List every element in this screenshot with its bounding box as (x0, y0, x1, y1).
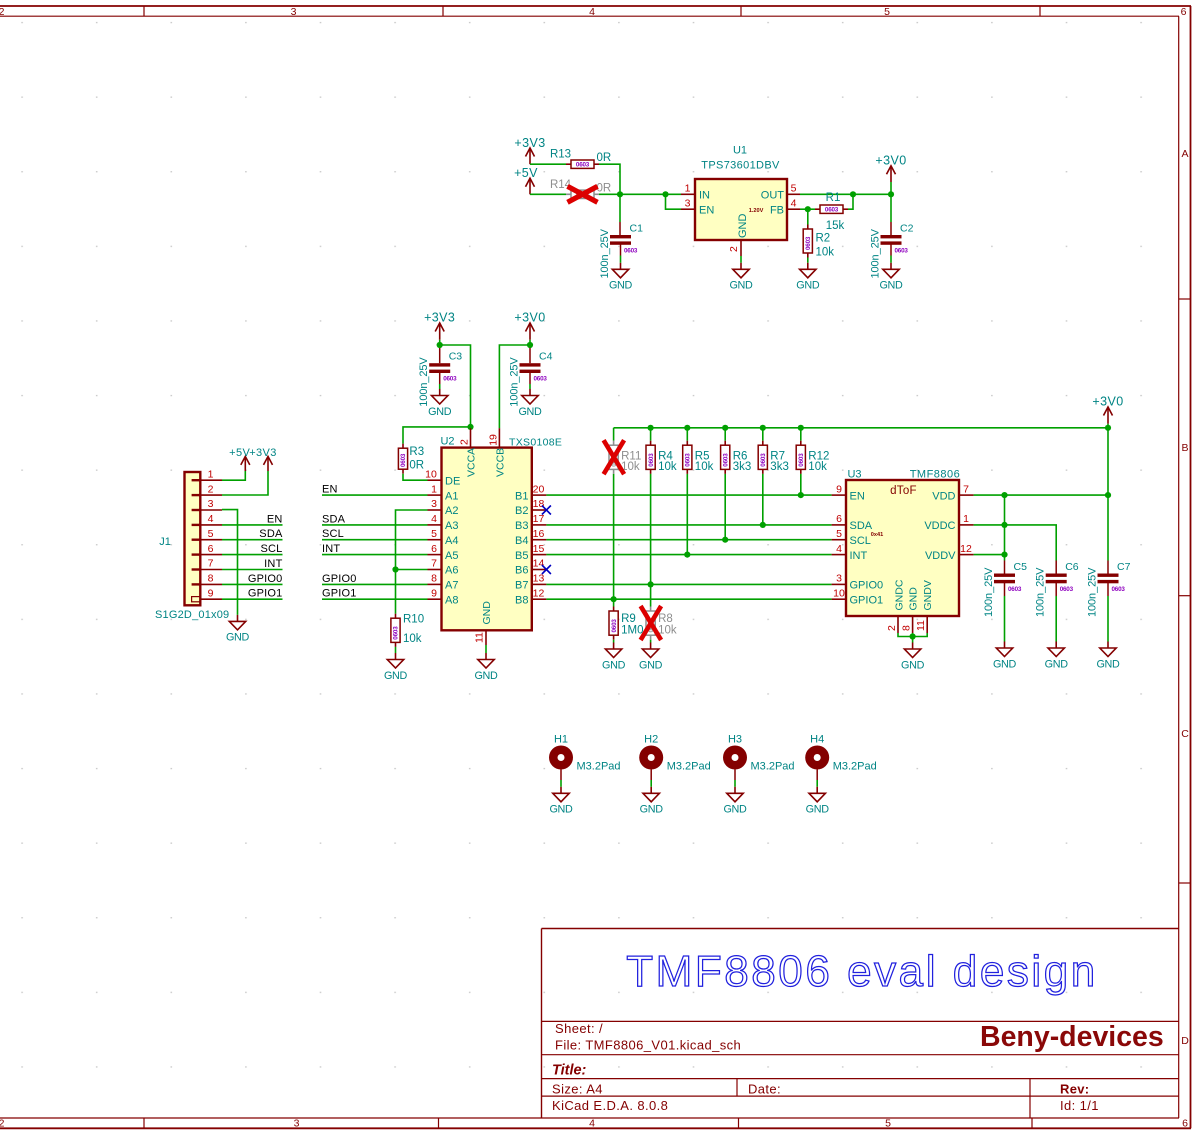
svg-text:0x41: 0x41 (871, 532, 883, 538)
wire J1 pin 4 EN (222, 524, 283, 526)
wire EN to U2 (322, 494, 428, 496)
svg-text:R10: R10 (403, 614, 424, 626)
resistor R8 10k DNP (641, 606, 677, 640)
svg-text:SCL: SCL (850, 535, 871, 547)
junction R6 net (722, 537, 728, 543)
junction VDD/C7 (1105, 492, 1111, 498)
ground H2 (640, 787, 664, 816)
svg-text:2: 2 (0, 1118, 5, 1130)
svg-text:A: A (1181, 148, 1188, 160)
svg-text:H4: H4 (810, 734, 824, 746)
svg-text:U1: U1 (733, 145, 747, 157)
svg-text:B4: B4 (515, 535, 528, 547)
power +3V3 (top) (514, 136, 545, 164)
svg-text:10k: 10k (695, 461, 714, 473)
ground H3 (723, 787, 747, 816)
svg-text:0603: 0603 (393, 626, 400, 640)
svg-text:3: 3 (294, 1118, 300, 1130)
svg-text:100n_25V: 100n_25V (1087, 567, 1099, 617)
svg-text:A4: A4 (445, 535, 458, 547)
ground C6 (1045, 642, 1069, 671)
svg-text:D: D (1181, 1035, 1189, 1047)
U1 pin 5 OUT (761, 183, 800, 202)
junction R5 net (684, 552, 690, 558)
svg-text:3: 3 (431, 498, 437, 510)
J1 pin 3 (200, 498, 222, 510)
resistor R9 1M0 (609, 607, 643, 640)
U2 pin 13 B7 (515, 573, 546, 592)
junction VIN/EN (662, 191, 668, 197)
svg-text:EN: EN (850, 490, 865, 502)
svg-text:R8: R8 (658, 613, 673, 625)
ground R10 (384, 653, 408, 682)
capacitor C2 100n_25V (870, 223, 914, 279)
svg-text:GND: GND (549, 804, 573, 816)
svg-text:1M0: 1M0 (621, 625, 643, 637)
svg-text:11: 11 (474, 632, 486, 643)
resistor R6 3k3 (721, 441, 752, 474)
svg-text:R9: R9 (621, 613, 636, 625)
U2 pin 12 B8 (515, 587, 546, 606)
U3 pin 1 VDDC (924, 513, 973, 532)
wire R13 to node (599, 164, 620, 194)
svg-text:14: 14 (533, 558, 545, 570)
U2 pin 18 B2 (515, 498, 546, 517)
U2 pin 15 B5 (515, 543, 546, 562)
U2 pin 20 B1 (515, 483, 546, 502)
wire rail to R5 (686, 428, 688, 441)
U3 pin 7 VDD (932, 483, 973, 502)
junction +3V0/C4 (527, 342, 533, 348)
U2 pin 9 A8 (428, 587, 459, 606)
svg-text:A5: A5 (445, 550, 458, 562)
svg-text:GND: GND (1045, 658, 1069, 670)
J1 pin 9 (200, 587, 222, 599)
svg-text:OUT: OUT (761, 190, 785, 202)
svg-text:2: 2 (459, 439, 471, 445)
svg-text:C5: C5 (1014, 561, 1028, 573)
wire +3V0 to VCCB (499, 345, 530, 428)
svg-text:GPIO0: GPIO0 (322, 573, 357, 585)
svg-text:KiCad E.D.A. 8.0.8: KiCad E.D.A. 8.0.8 (552, 1098, 668, 1113)
power +5V (top) (514, 166, 538, 194)
junction +3V3/C3 (437, 342, 443, 348)
junction VCCA node (467, 424, 473, 430)
wire VDDC (974, 525, 1057, 561)
svg-text:VCCB: VCCB (494, 448, 506, 477)
wire GPIO0 to U2 (322, 583, 428, 585)
svg-text:6: 6 (431, 543, 437, 555)
power +3V3 (U2) (424, 311, 455, 340)
U2 pin 8 A7 (428, 573, 459, 592)
wire +3V3 to VCCA (440, 345, 471, 428)
svg-text:INT: INT (850, 550, 868, 562)
svg-text:dToF: dToF (890, 485, 917, 497)
U1 pin 2 GND (728, 240, 741, 256)
svg-text:GND: GND (474, 670, 498, 682)
ground U2 (474, 653, 498, 682)
wire R12 down (800, 474, 802, 495)
svg-text:M3.2Pad: M3.2Pad (667, 761, 711, 773)
svg-text:+3V3: +3V3 (514, 136, 545, 150)
wire +3V0 node (529, 340, 531, 345)
wire A6 stub (396, 569, 428, 571)
J1 pin 7 (200, 558, 222, 570)
svg-text:0603: 0603 (443, 376, 457, 383)
svg-text:4: 4 (791, 198, 797, 210)
svg-text:2: 2 (728, 246, 740, 252)
wire R3 branch (403, 427, 471, 444)
wire FB node (800, 208, 815, 210)
U2 pin 6 A5 (428, 543, 459, 562)
wire SCL to U2 (322, 539, 428, 541)
svg-text:100n_25V: 100n_25V (599, 228, 611, 278)
svg-text:GND: GND (640, 804, 664, 816)
capacitor C7 100n_25V (1087, 561, 1131, 617)
svg-text:GND: GND (796, 280, 820, 292)
junction R11 net (611, 596, 617, 602)
svg-text:C6: C6 (1065, 561, 1079, 573)
svg-text:2: 2 (208, 483, 214, 495)
title block (542, 929, 1179, 1119)
svg-text:GND: GND (993, 658, 1017, 670)
svg-text:INT: INT (264, 558, 282, 570)
junction VDDC (1001, 522, 1007, 528)
wire R14 to U1 IN (599, 193, 681, 195)
wire C1 up (619, 194, 621, 222)
resistor R10 10k (391, 614, 424, 647)
mounting hole H1 M3.2Pad (549, 734, 621, 773)
svg-text:9: 9 (836, 483, 842, 495)
mounting hole H3 M3.2Pad (723, 734, 795, 773)
svg-text:0R: 0R (409, 460, 424, 472)
capacitor C5 100n_25V (983, 561, 1027, 617)
svg-text:0603: 0603 (685, 453, 692, 467)
svg-text:4: 4 (836, 543, 842, 555)
wire U2 B to U3 (546, 539, 831, 541)
svg-text:U3: U3 (847, 469, 861, 481)
svg-text:GND: GND (384, 670, 408, 682)
wire C3 gnd (439, 372, 441, 384)
U3 pin 3 GPIO0 (832, 573, 884, 592)
svg-text:4: 4 (208, 513, 214, 525)
junction VIN/C1 (617, 191, 623, 197)
svg-text:EN: EN (322, 484, 338, 496)
svg-text:1: 1 (431, 483, 437, 495)
resistor R2 10k (803, 225, 834, 259)
ground J1 (226, 615, 250, 644)
svg-text:+3V3: +3V3 (249, 447, 277, 459)
wire INT to U2 (322, 554, 428, 556)
junction rail R7 (760, 425, 766, 431)
svg-text:6: 6 (208, 543, 214, 555)
wire VDD to +3V0 (974, 428, 1108, 495)
U3 pin 4 INT (832, 543, 868, 562)
resistor R1 15k (815, 192, 848, 232)
power +3V0 (rail) (1092, 395, 1123, 424)
wire rail to R7 (762, 428, 764, 441)
svg-text:0R: 0R (597, 182, 612, 194)
wire U2 B to U3 (546, 598, 831, 600)
svg-text:7: 7 (208, 558, 214, 570)
svg-text:A2: A2 (445, 505, 458, 517)
svg-text:1.20V: 1.20V (749, 208, 764, 214)
svg-text:8: 8 (431, 573, 437, 585)
wire J1 pin 7 INT (222, 569, 283, 571)
svg-text:M3.2Pad: M3.2Pad (751, 761, 795, 773)
svg-text:DE: DE (445, 475, 460, 487)
junction OUT/+3V0 (888, 191, 894, 197)
svg-text:5: 5 (791, 183, 797, 195)
wire U2 B to U3 (546, 583, 831, 585)
svg-text:17: 17 (533, 513, 545, 525)
svg-text:13: 13 (533, 573, 545, 585)
svg-text:0603: 0603 (400, 453, 407, 467)
U1 pin 1 IN (681, 183, 710, 202)
svg-text:B6: B6 (515, 565, 528, 577)
svg-text:B7: B7 (515, 580, 528, 592)
svg-text:+5V: +5V (229, 447, 250, 459)
svg-text:A3: A3 (445, 520, 458, 532)
svg-text:VDDC: VDDC (924, 520, 955, 532)
svg-text:B: B (1181, 442, 1188, 454)
wire U2 B to U3 (546, 554, 831, 556)
svg-text:6: 6 (1181, 6, 1187, 18)
power +5V (J1) (229, 447, 250, 471)
U2 pin 4 A3 (428, 513, 459, 532)
svg-text:100n_25V: 100n_25V (870, 228, 882, 278)
svg-text:0603: 0603 (805, 236, 812, 250)
ground H4 (806, 787, 830, 816)
wire H4 gnd (816, 770, 818, 781)
svg-text:1: 1 (963, 513, 969, 525)
svg-text:B2: B2 (515, 505, 528, 517)
svg-text:0603: 0603 (760, 453, 767, 467)
svg-text:0603: 0603 (624, 248, 638, 255)
junction rail +3V0 (1105, 425, 1111, 431)
wire C5 gnd (1004, 583, 1006, 596)
svg-text:GND: GND (1096, 658, 1120, 670)
svg-text:9: 9 (431, 587, 437, 599)
svg-text:S1G2D_01x09: S1G2D_01x09 (155, 609, 229, 621)
resistor R12 10k (796, 441, 829, 474)
wire C2 gnd (890, 244, 892, 255)
svg-text:GND: GND (639, 659, 663, 671)
svg-text:TMF8806 eval design: TMF8806 eval design (626, 947, 1098, 996)
U2 pin 17 B3 (515, 513, 546, 532)
svg-text:Beny-devices: Beny-devices (980, 1021, 1164, 1053)
svg-text:Sheet: /: Sheet: / (555, 1021, 603, 1036)
wire C7 column (1107, 495, 1109, 560)
ground R2 (796, 263, 820, 292)
svg-text:TPS73601DBV: TPS73601DBV (701, 160, 780, 172)
svg-text:10k: 10k (658, 461, 677, 473)
svg-text:+3V3: +3V3 (424, 311, 455, 325)
svg-text:12: 12 (533, 587, 545, 599)
wire J1 pin 6 SCL (222, 554, 283, 556)
svg-text:0603: 0603 (1112, 586, 1126, 593)
U3 pin 6 SDA (832, 513, 873, 532)
svg-text:GND: GND (609, 280, 633, 292)
power +3V3 (J1) (249, 447, 277, 471)
wire H2 gnd (650, 770, 652, 781)
svg-text:R1: R1 (826, 192, 841, 204)
junction rail R4 (648, 425, 654, 431)
junction A6 (392, 566, 398, 572)
wire +3V3 to R13 (530, 163, 566, 165)
svg-text:IN: IN (699, 190, 710, 202)
junction rail R5 (684, 425, 690, 431)
svg-text:C2: C2 (900, 223, 914, 235)
U3 pin 12 VDDV (925, 543, 974, 562)
svg-text:0603: 0603 (648, 453, 655, 467)
svg-text:10k: 10k (403, 633, 422, 645)
wire A2-A6 tie (396, 510, 428, 614)
ground C2 (879, 263, 903, 292)
resistor R4 10k (646, 441, 677, 474)
wire H3 gnd (734, 770, 736, 781)
U2 pin 19 VCCB (487, 428, 499, 447)
svg-text:1: 1 (685, 183, 691, 195)
svg-text:100n_25V: 100n_25V (418, 357, 430, 407)
svg-text:0R: 0R (597, 152, 612, 164)
svg-text:GPIO0: GPIO0 (850, 580, 884, 592)
capacitor C4 100n_25V (509, 351, 553, 407)
wire J1 pin1 +5V (222, 471, 245, 480)
svg-text:GND: GND (879, 280, 903, 292)
mounting hole H4 M3.2Pad (805, 734, 877, 773)
capacitor C6 100n_25V (1035, 561, 1079, 617)
mounting hole H2 M3.2Pad (639, 734, 711, 773)
svg-text:GND: GND (737, 214, 749, 239)
J1 pin 8 (200, 573, 222, 585)
wire R3 to DE (403, 474, 428, 481)
svg-text:10k: 10k (808, 461, 827, 473)
svg-text:+3V0: +3V0 (514, 311, 545, 325)
connector J1 S1G2D_01x09 (155, 472, 229, 621)
svg-text:B3: B3 (515, 520, 528, 532)
U2 pin 7 A6 (428, 558, 459, 577)
wire U2 B to U3 (546, 524, 831, 526)
svg-text:GPIO0: GPIO0 (248, 573, 283, 585)
svg-text:5: 5 (884, 6, 890, 18)
U1 pin 4 FB (770, 198, 800, 217)
svg-text:GND: GND (806, 804, 830, 816)
svg-text:H3: H3 (728, 734, 742, 746)
svg-text:VDDV: VDDV (925, 550, 956, 562)
IC U1 TPS73601DBV (695, 145, 787, 241)
svg-text:GND: GND (723, 804, 747, 816)
wire rail to R11 (613, 428, 615, 441)
junction VDD/C5 (1001, 492, 1007, 498)
svg-text:INT: INT (322, 543, 340, 555)
wire C4 gnd (529, 372, 531, 384)
svg-text:GNDV: GNDV (922, 580, 934, 610)
svg-text:2: 2 (886, 625, 898, 631)
svg-text:R3: R3 (409, 446, 424, 458)
resistor R3 0R (398, 444, 424, 474)
svg-text:+3V0: +3V0 (875, 154, 906, 168)
svg-text:4: 4 (431, 513, 437, 525)
svg-text:GPIO1: GPIO1 (248, 588, 283, 600)
svg-text:TMF8806: TMF8806 (910, 469, 961, 481)
svg-text:3: 3 (685, 198, 691, 210)
wire J1 pin 5 SDA (222, 539, 283, 541)
svg-text:M3.2Pad: M3.2Pad (577, 761, 621, 773)
U2 pin 11 GND (474, 630, 487, 645)
svg-text:Rev:: Rev: (1060, 1082, 1089, 1097)
svg-text:EN: EN (699, 205, 714, 217)
wire C7 gnd (1107, 583, 1109, 596)
power +3V0 (U2) (514, 311, 545, 340)
svg-text:M3.2Pad: M3.2Pad (833, 761, 877, 773)
ground C4 (518, 389, 542, 418)
J1 pin 6 (200, 543, 222, 555)
resistor R7 3k3 (758, 441, 789, 474)
wire C6 gnd (1055, 583, 1057, 596)
U2 pin 1 A1 (428, 483, 459, 502)
svg-text:0603: 0603 (611, 619, 618, 633)
svg-text:6: 6 (836, 513, 842, 525)
junction R1/OUT (850, 191, 856, 197)
svg-text:7: 7 (963, 483, 969, 495)
junction R7 net (760, 522, 766, 528)
U1 pin 3 EN (681, 198, 714, 217)
svg-text:0603: 0603 (722, 453, 729, 467)
svg-text:0603: 0603 (1008, 586, 1022, 593)
svg-text:10: 10 (425, 468, 437, 480)
svg-text:GND: GND (908, 587, 920, 611)
svg-text:3: 3 (208, 498, 214, 510)
svg-text:10k: 10k (816, 247, 835, 259)
wire R4-R8 (650, 584, 652, 606)
power +3V0 (top) (875, 154, 906, 183)
svg-text:GPIO1: GPIO1 (322, 588, 357, 600)
ground C1 (609, 263, 633, 292)
svg-text:GND: GND (729, 280, 753, 292)
svg-text:GNDC: GNDC (893, 579, 905, 610)
wire J1 pin 9 GPIO1 (222, 598, 283, 600)
svg-text:100n_25V: 100n_25V (509, 357, 521, 407)
svg-text:0603: 0603 (576, 161, 590, 168)
svg-text:20: 20 (533, 483, 545, 495)
wire J1 pin 8 GPIO0 (222, 583, 283, 585)
svg-text:0603: 0603 (1060, 586, 1074, 593)
svg-text:VCCA: VCCA (466, 448, 478, 477)
ground H1 (549, 787, 573, 816)
wire U2 gnd (485, 645, 487, 653)
wire +3V0 rail (614, 427, 1108, 429)
svg-text:+5V: +5V (514, 166, 538, 180)
wire C5 column (1004, 495, 1006, 560)
wire R1 to OUT (848, 194, 853, 209)
svg-text:GND: GND (226, 632, 250, 644)
wire J1 pin2 +3V3 (222, 471, 268, 495)
svg-text:100n_25V: 100n_25V (983, 567, 995, 617)
svg-text:Date:: Date: (748, 1082, 781, 1097)
ground U1 (729, 263, 753, 292)
wire R2 down (807, 209, 809, 224)
U2 pin 5 A4 (428, 528, 459, 547)
U2 pin 2 VCCA (459, 428, 471, 447)
svg-text:File: TMF8806_V01.kicad_sch: File: TMF8806_V01.kicad_sch (555, 1038, 741, 1053)
resistor R13 0R (550, 149, 611, 169)
svg-text:A7: A7 (445, 580, 458, 592)
svg-text:3k3: 3k3 (733, 461, 752, 473)
svg-text:EN: EN (267, 513, 283, 525)
svg-text:Size: A4: Size: A4 (552, 1082, 603, 1097)
wire +3V0 to OUT (890, 182, 892, 222)
